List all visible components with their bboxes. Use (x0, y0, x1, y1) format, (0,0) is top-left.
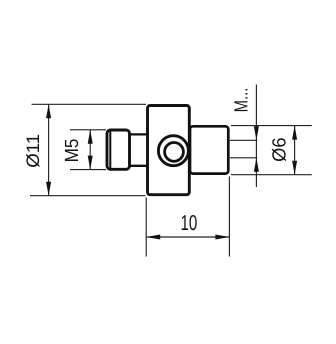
neck lower line (130, 165, 148, 167)
svg-text:Ø6: Ø6 (270, 138, 291, 162)
cylinder Ø6 (190, 126, 228, 173)
arrow M5 up (88, 130, 93, 144)
neck upper line (130, 133, 148, 135)
M5 threaded stud (107, 130, 130, 169)
dim Ø11 extension line top (32, 103, 147, 105)
dim M5 dimension line (89, 130, 91, 170)
side hole inner circle (165, 143, 184, 162)
svg-text:M...: M... (231, 88, 252, 113)
arrow 10 right (215, 235, 229, 240)
dim M thread extension line top (230, 139, 257, 141)
side hole outer circle (158, 136, 188, 166)
arrow Ø11 down (46, 182, 51, 196)
arrow Ø6 down (292, 161, 297, 175)
arrow Ø11 up (46, 104, 51, 118)
arrow M5 down (88, 156, 93, 170)
dim Ø6 dimension line (294, 126, 296, 175)
arrow M thread up (outside) (254, 158, 259, 172)
arrow 10 left (146, 235, 160, 240)
dim Ø11 extension line bottom (30, 195, 146, 197)
arrow M thread down (outside) (254, 126, 259, 140)
dim 10 extension line right (228, 177, 230, 257)
dim M thread extension line bottom (230, 157, 257, 159)
dim M5 extension line bottom (70, 169, 106, 171)
dim Ø6 extension line top (231, 125, 312, 127)
dim M thread dimension line (255, 85, 257, 188)
arrow Ø6 up (292, 126, 297, 140)
main body Ø11 (148, 106, 190, 195)
dim 10 dimension line (146, 236, 229, 238)
svg-text:Ø11: Ø11 (23, 134, 43, 168)
dim 10 extension line left (145, 198, 147, 257)
thread chamfer line (109, 131, 111, 168)
dim M5 extension line top (70, 129, 106, 131)
svg-text:10: 10 (181, 211, 198, 235)
dim Ø6 extension line bottom (231, 174, 312, 176)
dim Ø11 dimension line (48, 104, 50, 195)
svg-text:M5: M5 (62, 139, 83, 163)
